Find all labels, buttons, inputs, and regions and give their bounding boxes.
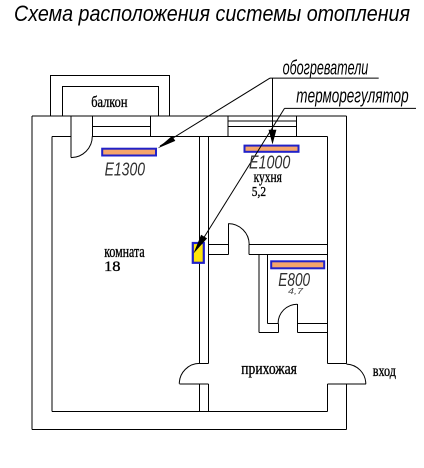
- wall: inner right (entrance gap): [327, 136, 329, 411]
- wall: inner left: [51, 136, 53, 411]
- wall: bathroom bottom outer line: [259, 332, 328, 334]
- svg-text:вход: вход: [373, 363, 396, 380]
- wall: inner top (gap for balcony door): [52, 135, 328, 137]
- svg-text:балкон: балкон: [91, 94, 128, 111]
- leader underline: терморегулятор: [285, 107, 417, 109]
- svg-text:обогреватели: обогреватели: [283, 58, 369, 80]
- arrowhead at E1000: [269, 130, 277, 145]
- kitchen door leaf+jamb: [227, 224, 229, 255]
- heater E1300: [102, 149, 156, 156]
- balcony outer rectangle: [51, 76, 170, 116]
- wall: bathroom bottom inner line: [268, 322, 328, 324]
- balcony door jamb+leaf: [70, 116, 72, 158]
- svg-text:5,2: 5,2: [252, 184, 266, 199]
- entrance door top jamb: [328, 363, 347, 365]
- kitchen window middle line 2: [228, 126, 297, 128]
- kitchen window middle line 1: [228, 120, 297, 122]
- heater E800: [271, 261, 324, 268]
- kitchen window right jamb: [296, 116, 298, 136]
- wall: bathroom left outer: [258, 254, 260, 332]
- svg-text:прихожая: прихожая: [241, 359, 297, 378]
- svg-text:терморегулятор: терморегулятор: [296, 85, 408, 107]
- wall: apartment outer right (entrance gap): [346, 116, 348, 430]
- wall: inner bottom: [52, 411, 328, 413]
- leader line to heater E1300: [160, 78, 270, 146]
- leader line to thermostat: [198, 108, 285, 247]
- thermostat: [193, 243, 204, 263]
- wall: room/kitchen-hall right line: [207, 136, 209, 411]
- room door top jamb: [200, 362, 209, 364]
- svg-text:комната: комната: [104, 242, 145, 261]
- wall: room/kitchen-hall left line: [199, 136, 201, 411]
- wall: bathroom left inner: [267, 254, 269, 323]
- svg-text:4,7: 4,7: [288, 287, 304, 296]
- leader underline: обогреватели: [270, 77, 379, 79]
- room door leaf: [179, 383, 199, 385]
- kitchen door swing arc: [228, 224, 249, 245]
- wall: kitchen bottom bottom line: [208, 253, 327, 255]
- entrance door bottom jamb + leaf: [328, 383, 366, 385]
- wall: apartment outer left: [31, 116, 33, 430]
- svg-text:Схема расположения системы ото: Схема расположения системы отопления: [14, 1, 410, 26]
- room door bottom jamb: [200, 383, 209, 385]
- wall: kitchen bottom top line: [208, 244, 327, 246]
- kitchen window left jamb: [227, 116, 229, 136]
- balcony inner rectangle: [62, 87, 158, 117]
- svg-text:E1300: E1300: [105, 160, 145, 180]
- balcony door right jamb: [91, 116, 93, 136]
- balcony door swing arc: [71, 136, 92, 157]
- leader line to heater E1000: [272, 78, 274, 131]
- arrowhead at E1300: [158, 136, 176, 149]
- room door swing arc: [179, 363, 199, 383]
- svg-text:18: 18: [104, 259, 121, 275]
- kitchen door right jamb: [248, 245, 250, 255]
- wall: apartment outer top: [32, 115, 347, 117]
- bathroom door swing arc: [278, 304, 297, 323]
- balcony window right jamb: [149, 116, 151, 136]
- wall: apartment outer bottom: [32, 429, 347, 431]
- arrowhead at thermostat: [194, 235, 208, 254]
- heater E1000: [245, 146, 299, 152]
- bathroom door leaf: [296, 304, 298, 332]
- bathroom door left jamb: [277, 323, 279, 332]
- entrance door swing arc: [347, 364, 366, 384]
- balcony window middle line: [92, 126, 150, 128]
